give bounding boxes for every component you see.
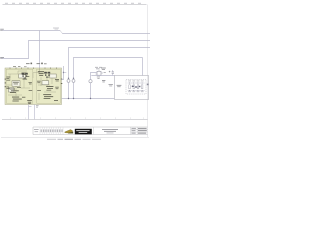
plus mark of C1 [109, 71, 111, 73]
sheet right border line [147, 5, 149, 138]
top zone ruler tick marks [5, 3, 141, 4]
wire W6 output wire to load box [91, 75, 114, 77]
sheet top border line [3, 4, 147, 6]
lamp/current-source B [72, 79, 75, 82]
doc info text marks [132, 128, 147, 134]
logo banner white text [76, 130, 89, 133]
IC U2 pin ticks [96, 70, 104, 74]
transistor pair Q2 (right half top cluster) [44, 72, 50, 78]
module internal wiring mesh [7, 71, 56, 100]
sheet outer bottom border [1, 137, 149, 139]
load labels [128, 81, 143, 93]
dashed load sub-box [126, 79, 146, 94]
footer text [47, 138, 101, 141]
connector tick between stubs [29, 106, 32, 108]
labels above module left [13, 65, 27, 68]
load middle dark cluster [132, 86, 141, 88]
wire W2 (lower input, steps up and runs right) [2, 41, 150, 59]
separator right of logo banner [93, 127, 95, 135]
label beside pin stub [36, 105, 39, 107]
capacitor C1 (polarized, + mark) [112, 70, 114, 76]
load enclosure box [115, 76, 149, 100]
IC U2 (small regulator box) [97, 71, 101, 75]
wire lamp C to bus [90, 83, 92, 99]
module top edge pin marks [10, 68, 58, 69]
revision table cell separators [40, 127, 63, 135]
pin stubs below module to frame [28, 105, 30, 120]
pin mark on load box right edge [147, 84, 149, 86]
module internal: right half components [42, 74, 56, 85]
load resistor bank [129, 85, 143, 89]
company logo arrow (gold) [65, 130, 73, 134]
label left of load box [109, 84, 113, 86]
title text block [102, 129, 118, 133]
tick on V1 [64, 72, 67, 74]
junction dots on load rails [129, 83, 143, 91]
bottom zone ruler ticks [10, 118, 144, 119]
transistor pair Q1 (left half top cluster) [22, 73, 28, 79]
node label VIN- (left edge, wire W2) [0, 57, 4, 59]
wire lamp C feed from IC [91, 73, 97, 80]
lamp/current-source C [89, 80, 92, 83]
lamp/current-source A [67, 79, 70, 82]
drawing area bottom border [2, 119, 148, 121]
wire lamp B to bus [73, 83, 75, 99]
doc info table [131, 127, 148, 135]
wire into module from top pin [38, 68, 40, 73]
module sub-block B outline [37, 69, 61, 103]
wire: drop from W1 into module top pin [39, 31, 41, 69]
module internal: left half components [9, 74, 26, 92]
wire W4 (rail, corner down to lamp A) [69, 48, 151, 79]
labels above IC U2 [95, 67, 102, 69]
junction dots on bus [68, 98, 91, 99]
module bottom-center text marks [27, 100, 32, 104]
wire W5 right drop into load box [142, 58, 144, 76]
load internal bottom rail [128, 89, 145, 91]
node label VIN+ (left edge, wire W1) [0, 29, 4, 31]
module U1 (green hybrid block) [5, 68, 62, 105]
net label on wire W1 [53, 28, 59, 30]
module sub-block A outline [6, 69, 32, 103]
wire V1 from module right region [62, 66, 64, 80]
company logo black banner [75, 129, 92, 135]
load internal top rail [128, 82, 145, 84]
title block strip outline [33, 127, 148, 135]
wire W5 (rail, corner down to lamp B) [74, 58, 143, 79]
wire W1 end arrow / diagonal jog [60, 31, 63, 34]
junction dot [63, 72, 64, 73]
ground return bus [62, 98, 115, 100]
wire W3 (upper rail to right edge) [62, 33, 150, 35]
junction dot above lamp A [68, 78, 69, 79]
tick right of IC U2 [104, 71, 106, 74]
wire W1 (top input bus) [2, 30, 60, 32]
module edge pin marks [5, 79, 63, 88]
label RLOAD inside enclosure [117, 85, 122, 87]
junction dot above lamp B [73, 78, 74, 79]
label below C1 [102, 80, 105, 82]
revision table text marks [34, 129, 63, 132]
wire lamp A to bus [68, 83, 70, 99]
labels below IC U2 [97, 77, 100, 79]
labels m1 m2 above module [26, 63, 47, 65]
label left of C1 [101, 68, 106, 70]
